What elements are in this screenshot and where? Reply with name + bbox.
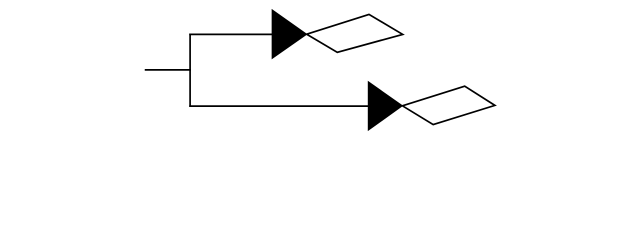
emitter D1: filled triangle (top) bbox=[272, 10, 307, 59]
emitter D2: parallelogram plate (bottom) bbox=[402, 86, 495, 124]
wire: vertical branch bus bbox=[189, 34, 191, 106]
emitter D2: filled triangle (bottom) bbox=[368, 82, 402, 131]
emitter D1: parallelogram plate (top) bbox=[307, 14, 403, 52]
wire: input stub bbox=[146, 69, 191, 71]
wire: top branch horizontal bbox=[190, 33, 273, 35]
wire: bottom branch horizontal bbox=[190, 105, 369, 107]
